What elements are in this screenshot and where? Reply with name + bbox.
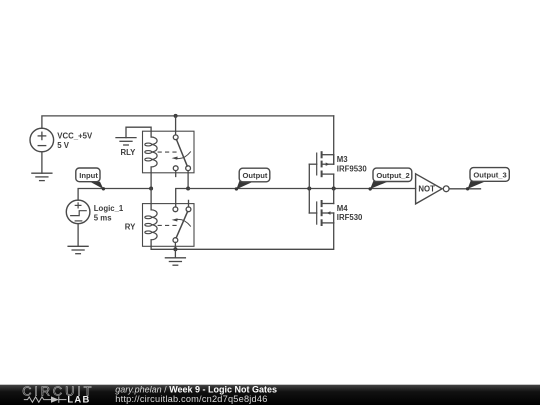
blade <box>176 212 187 238</box>
svg-text:gary.phelan / Week 9 - Logic N: gary.phelan / Week 9 - Logic Not Gates <box>115 385 277 395</box>
actuation arrow <box>177 152 191 159</box>
label VCC_+5V value <box>57 132 93 151</box>
svg-text:NOT: NOT <box>418 185 435 194</box>
svg-text:Logic_1: Logic_1 <box>94 204 124 213</box>
svg-text:Output_2: Output_2 <box>376 171 409 180</box>
wire ground bus bottom <box>151 223 334 249</box>
wire Logic_1 to input wire <box>78 189 151 201</box>
svg-text:RLY: RLY <box>121 148 137 157</box>
node flag Output <box>235 168 270 190</box>
coil <box>150 131 152 137</box>
ground under VCC <box>32 173 52 180</box>
wire Logic_1 to ground <box>77 224 79 247</box>
label Logic_1 value <box>94 204 124 223</box>
node ground junction <box>173 247 177 251</box>
svg-text:VCC_+5V: VCC_+5V <box>57 132 93 141</box>
node flag Input <box>76 168 105 191</box>
node gate junction <box>307 187 311 191</box>
svg-text:RY: RY <box>125 223 136 232</box>
node output junction <box>186 187 190 191</box>
svg-text:Input: Input <box>79 171 98 180</box>
contacts <box>173 207 178 212</box>
wire RLY switch to output node <box>187 171 189 189</box>
logo squiggle resistor and diode <box>24 396 67 402</box>
wire rail to RLY common contact <box>175 116 177 135</box>
svg-text:IRF9530: IRF9530 <box>337 164 368 173</box>
contacts <box>173 135 178 140</box>
relay RY <box>143 204 195 247</box>
node flag Output_3 <box>466 168 509 191</box>
wire RY common to ground wire <box>174 242 176 249</box>
wire VCC to ground <box>41 152 43 173</box>
voltage source VCC_+5V <box>30 128 54 152</box>
footer bar <box>0 385 540 405</box>
wire top +5V rail <box>42 116 334 128</box>
wire RLY coil to input node <box>150 173 152 189</box>
svg-text:IRF530: IRF530 <box>337 213 363 222</box>
pin stub RY NO contact <box>188 200 190 207</box>
svg-text:5 V: 5 V <box>57 141 70 150</box>
wire RLY coil to RY coil <box>150 189 152 204</box>
transistor M3 <box>309 151 333 188</box>
wire NOT output stub <box>449 188 480 190</box>
ground under Logic_1 <box>68 246 88 253</box>
wire stub to ground under RY <box>174 249 176 257</box>
wire gate net M3/M4 <box>308 164 310 213</box>
label M4 IRF530 <box>337 204 363 222</box>
wire rail to M3 drain <box>333 116 335 164</box>
voltage source Logic_1 <box>66 200 90 224</box>
svg-text:M3: M3 <box>337 155 348 164</box>
node junction on rail <box>174 114 178 118</box>
dashed actuation link <box>158 224 178 226</box>
wire output net to NOT input <box>188 188 416 190</box>
svg-text:LAB: LAB <box>67 394 90 405</box>
svg-text:5 ms: 5 ms <box>94 214 112 223</box>
ground under RY <box>165 258 185 265</box>
node drain junction <box>332 187 336 191</box>
svg-text:Output_3: Output_3 <box>473 171 506 180</box>
ground left of RLY <box>116 138 136 145</box>
node input junction <box>149 187 153 191</box>
node flag Output_2 <box>369 168 412 190</box>
blade <box>177 140 188 166</box>
actuation arrow <box>177 219 191 226</box>
wire RLY coil to left ground <box>126 127 151 137</box>
svg-text:Output: Output <box>243 171 268 180</box>
coil <box>150 204 152 210</box>
label M3 IRF9530 <box>337 155 368 173</box>
relay RLY <box>143 131 195 173</box>
pin stub RLY NC contact <box>175 171 177 177</box>
svg-text:M4: M4 <box>337 204 348 213</box>
transistor M4 <box>309 189 333 227</box>
gate U1 NOT <box>416 174 450 204</box>
svg-text:http://circuitlab.com/cn2d7q5e: http://circuitlab.com/cn2d7q5e8jd46 <box>115 394 267 404</box>
wire RY switch to output node <box>176 189 188 208</box>
dashed actuation link <box>158 151 178 153</box>
